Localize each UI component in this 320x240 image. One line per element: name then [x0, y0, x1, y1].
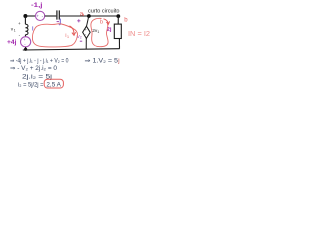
node b — [116, 14, 120, 18]
equation line 2 — [10, 66, 58, 72]
resistor 2j (box) — [114, 24, 121, 38]
wire short-circuit a to b — [89, 15, 119, 17]
wire bottom rail — [23, 49, 120, 50]
node a label — [80, 12, 84, 18]
svg-text:-: - — [24, 42, 26, 47]
value label -j — [57, 19, 61, 25]
svg-text:1: 1 — [67, 35, 69, 39]
mesh loop b — [91, 18, 110, 46]
node left junction — [23, 14, 27, 18]
node b label — [124, 18, 128, 24]
equation line 4 — [18, 83, 44, 89]
V2 annotation + V2 - — [77, 19, 83, 41]
wire resistor to bottom rail — [118, 39, 120, 49]
svg-text:⇒ 1.V₂ = 5: ⇒ 1.V₂ = 5 — [85, 58, 119, 64]
value label -1,j — [31, 3, 43, 9]
wire left branch down — [24, 16, 26, 24]
svg-text:1: 1 — [97, 30, 99, 34]
svg-text:b: b — [100, 19, 103, 25]
svg-text:-: - — [85, 32, 87, 37]
svg-text:curto circuito: curto circuito — [88, 9, 120, 15]
equation line 1 — [10, 58, 69, 64]
mesh loop i1 — [32, 24, 77, 47]
label + v1 - — [11, 21, 21, 38]
wire node a to dependent source — [87, 16, 89, 26]
value label 2j — [107, 27, 112, 33]
voltage source +4j — [21, 37, 31, 47]
equation line 1 result — [85, 58, 120, 64]
wire node b down — [117, 16, 119, 24]
branch current i label — [32, 27, 34, 33]
svg-text:⇒ - V₂ + 2j.i₂ = 0: ⇒ - V₂ + 2j.i₂ = 0 — [10, 66, 58, 72]
svg-text:-1,j: -1,j — [31, 3, 43, 9]
capacitor C (-j) — [57, 10, 59, 19]
wire source to bottom rail — [25, 47, 27, 50]
svg-text:i₂ = 5j/2j =: i₂ = 5j/2j = — [18, 83, 44, 89]
svg-text:2,5 A: 2,5 A — [46, 82, 61, 88]
result box 2,5 A — [44, 79, 63, 88]
voltage source V=-1,j — [36, 11, 45, 20]
svg-text:-: - — [19, 34, 21, 39]
equation line 3 — [22, 74, 52, 80]
svg-text:+: + — [18, 21, 21, 26]
wire inductor to source — [24, 35, 26, 37]
wire source to capacitor — [45, 15, 57, 17]
svg-text:b: b — [124, 18, 128, 24]
value label +4j — [7, 40, 17, 46]
wire top rail left segment — [25, 15, 35, 17]
svg-text:j: j — [117, 58, 119, 64]
node bottom-left junction — [24, 48, 27, 51]
label curto circuito — [88, 9, 120, 15]
svg-text:1: 1 — [14, 28, 16, 32]
dependent source 2v1 (diamond) — [83, 26, 91, 38]
svg-text:+: + — [36, 14, 39, 19]
wire dependent source to bottom rail — [85, 38, 87, 49]
svg-text:IN = I2: IN = I2 — [128, 31, 150, 38]
inductor L (j) — [25, 24, 28, 35]
wire capacitor to node a — [60, 15, 89, 17]
node a — [87, 14, 91, 18]
mesh loop b label — [100, 19, 103, 25]
value label 2v1 — [92, 28, 99, 34]
annotation IN = I2 — [128, 31, 150, 38]
svg-text:⇒ -4j + j.i₁ - j - j.i₁ + V₂ =: ⇒ -4j + j.i₁ - j - j.i₁ + V₂ = 0 — [10, 58, 69, 64]
svg-text:2: 2 — [80, 36, 82, 40]
mesh current label i1 — [65, 33, 69, 39]
svg-text:+4j: +4j — [7, 40, 17, 46]
